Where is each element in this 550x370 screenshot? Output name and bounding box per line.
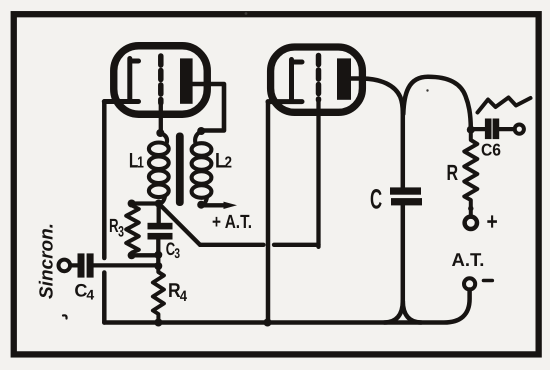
svg-text:+: + <box>487 209 498 236</box>
capacitor C4 <box>78 253 85 277</box>
terminal C6 right <box>515 125 524 134</box>
svg-text:L1: L1 <box>129 150 144 173</box>
paper speck <box>245 12 248 15</box>
node L1 top <box>156 129 164 137</box>
node R4 bottom <box>154 319 162 327</box>
V2 anode lead <box>351 76 365 81</box>
terminal minus <box>464 278 475 289</box>
label R <box>447 160 459 185</box>
wire V1 grid to L1 <box>159 100 163 132</box>
terminal + <box>465 217 477 229</box>
wire V2 cathode down <box>266 102 271 323</box>
triode V1 envelope <box>114 46 208 115</box>
wire to V2 grid (left of hop) <box>200 243 264 247</box>
V1 anode plate <box>180 58 193 103</box>
node L2 bottom <box>197 201 205 209</box>
V1 grid (dashed) <box>158 56 164 103</box>
V2 cathode <box>268 60 302 102</box>
paper speck <box>426 89 428 91</box>
label C <box>370 184 382 215</box>
svg-text:L2: L2 <box>215 150 232 173</box>
wire V2 grid riser <box>316 100 320 247</box>
ground bus wire <box>104 290 469 323</box>
paper speck comma <box>63 315 67 318</box>
wire to V2 grid (right of hop) <box>274 243 319 247</box>
node R/C6 junction <box>467 126 475 134</box>
transformer core <box>176 133 184 207</box>
wire anode2 curve down <box>363 79 403 114</box>
capacitor C <box>401 112 406 187</box>
Sincron terminal <box>59 260 71 272</box>
svg-text:+ A.T.: + A.T. <box>212 212 252 233</box>
resistor R3 <box>126 204 139 256</box>
wire C bottom left fillet <box>385 301 403 323</box>
node C4 junction <box>154 262 162 270</box>
svg-text:C: C <box>370 184 382 215</box>
wire C bottom right fillet <box>403 301 421 323</box>
svg-text:R4: R4 <box>168 280 188 305</box>
wire R3 bottom to C3 bottom <box>132 253 159 257</box>
capacitor C3 <box>157 204 161 223</box>
svg-text:R3: R3 <box>109 216 124 241</box>
label minus <box>484 279 493 283</box>
label R3 <box>109 216 124 241</box>
svg-text:A.T.: A.T. <box>452 249 485 270</box>
triode V2 envelope <box>271 47 363 112</box>
node R3 bottom <box>128 251 136 259</box>
label C6 <box>481 141 501 160</box>
svg-text:R: R <box>447 160 459 185</box>
wire junction to C6 <box>471 127 485 131</box>
resistor R <box>464 130 477 217</box>
node grid-leak junction <box>155 200 163 208</box>
label C4 <box>74 281 94 303</box>
node above + terminal <box>468 206 473 211</box>
node C3 bottom <box>154 251 162 259</box>
V1 cathode <box>104 59 138 102</box>
node R3 top <box>128 200 136 208</box>
wire junction to R3 <box>132 201 159 205</box>
svg-text:C3: C3 <box>166 239 180 261</box>
resistor R4 <box>153 266 164 323</box>
label L1 <box>129 150 144 173</box>
capacitor C6 <box>485 119 492 140</box>
V2 anode plate <box>337 58 351 99</box>
photocell zigzag <box>478 98 531 113</box>
inductor L2 <box>192 131 212 205</box>
wire hump to R/C6 <box>403 77 471 130</box>
coupling diagonal wire <box>161 205 201 245</box>
+A.T. arrow <box>201 203 225 207</box>
V2 grid (dashed) <box>316 56 322 101</box>
V1 anode lead wire <box>193 84 225 131</box>
node cathode bus <box>264 319 272 327</box>
wire C4 to junction <box>94 263 159 267</box>
inductor L1 <box>149 133 169 204</box>
label C3 <box>166 239 180 261</box>
svg-text:Sincron.: Sincron. <box>37 223 58 299</box>
wire V1 cathode down (lower, after hop) <box>102 273 107 323</box>
node L2 top <box>197 127 205 135</box>
label + A.T. <box>212 212 252 233</box>
svg-text:C6: C6 <box>481 141 501 160</box>
svg-text:C4: C4 <box>74 281 94 303</box>
label + <box>487 209 498 236</box>
label R4 <box>168 280 188 305</box>
label L2 <box>215 150 232 173</box>
wire V1 cathode down (upper) <box>102 102 107 259</box>
